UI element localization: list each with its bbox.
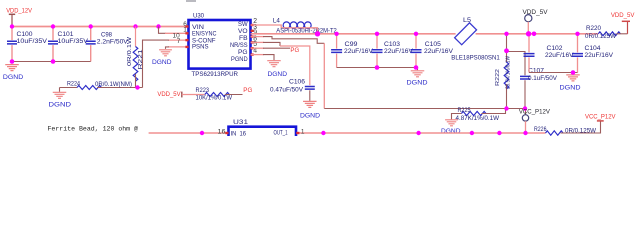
resistor R221 (vertical) xyxy=(127,27,144,88)
svg-text:25.5K/1%/0.1W: 25.5K/1%/0.1W xyxy=(506,55,512,89)
capacitor C100 xyxy=(7,27,48,62)
junction dot (137.5,87.5) xyxy=(135,85,139,89)
svg-text:DGND: DGND xyxy=(152,59,172,66)
junction dot (12,26.5) xyxy=(10,24,14,28)
junction dot (528.6,33.8) xyxy=(526,31,531,36)
svg-text:4.87K/1%/0.1W: 4.87K/1%/0.1W xyxy=(456,115,500,122)
svg-text:C103: C103 xyxy=(384,41,401,48)
capacitor C102 xyxy=(524,34,575,73)
power flag VDD_5V pullup xyxy=(157,91,181,98)
wire mid cap ground bus xyxy=(337,68,418,71)
wire PSNS net xyxy=(168,46,189,48)
junction dot (471.9,133) xyxy=(470,131,474,135)
junction dot (506.5,108.5) xyxy=(504,106,508,110)
svg-text:R224: R224 xyxy=(67,80,80,87)
capacitor C103 xyxy=(372,34,414,68)
power flag VDD_12V xyxy=(6,8,32,27)
resistor R226 xyxy=(534,121,601,135)
junction dot (377,33.8) xyxy=(375,32,379,36)
junction dot (377,67.5) xyxy=(375,65,380,70)
svg-text:DGND: DGND xyxy=(560,85,581,92)
ground DGND at R224 xyxy=(49,88,72,109)
junction dot (53,61.5) xyxy=(51,59,56,64)
junction dot (90.7,26.5) xyxy=(89,24,93,28)
wire FB divider line xyxy=(324,108,506,110)
svg-text:U31: U31 xyxy=(233,119,249,126)
svg-text:1: 1 xyxy=(301,128,305,135)
capacitor C106 xyxy=(270,79,315,101)
wire SW to L4 xyxy=(251,25,284,28)
svg-text:0.1uF/50V: 0.1uF/50V xyxy=(528,75,558,82)
svg-text:22uF/16V: 22uF/16V xyxy=(344,48,374,55)
gray tick top edge xyxy=(186,0,196,2)
power flag VCC_P12V right xyxy=(585,113,616,121)
IC U31 partial xyxy=(229,119,297,141)
junction dot (573,72.5) xyxy=(571,70,576,75)
ground DGND mid caps xyxy=(407,71,428,87)
svg-text:22uF/16V: 22uF/16V xyxy=(585,52,614,59)
junction dot (577.5,33.8) xyxy=(575,32,579,36)
svg-text:R223: R223 xyxy=(196,87,210,94)
pin numbers U30 left xyxy=(173,21,188,45)
svg-text:22uF/16V: 22uF/16V xyxy=(545,52,574,59)
svg-text:0R/0.125W: 0R/0.125W xyxy=(585,33,616,40)
svg-text:SW: SW xyxy=(238,21,248,28)
ground DGND at C106 xyxy=(300,101,320,119)
junction dot (499.4,133) xyxy=(497,131,501,135)
svg-text:C100: C100 xyxy=(17,31,34,38)
wire input cap ground bus xyxy=(12,62,91,64)
svg-text:C101: C101 xyxy=(58,31,75,38)
svg-text:VDD_5V: VDD_5V xyxy=(157,91,181,98)
svg-text:VDD_5V: VDD_5V xyxy=(611,12,635,19)
pin wedges U30 xyxy=(185,24,253,56)
svg-text:U30: U30 xyxy=(193,13,204,20)
junction dot (506.5,50.8) xyxy=(504,48,509,53)
wire VIN rail xyxy=(12,26,189,28)
svg-text:VO: VO xyxy=(238,28,248,35)
IC U30 TPS62913RPUR xyxy=(189,13,251,78)
power flag VDD_5V right xyxy=(611,12,635,21)
svg-text:C98: C98 xyxy=(101,31,113,38)
svg-text:10K/1%/0.1W: 10K/1%/0.1W xyxy=(196,95,233,102)
junction dot (135.5,26.5) xyxy=(133,24,137,28)
pin wedges U31 xyxy=(225,132,299,134)
wire bottom rail left xyxy=(149,132,229,134)
junction dot (416,67.5) xyxy=(414,65,419,70)
svg-text:PG: PG xyxy=(290,47,299,54)
capacitor C99 xyxy=(331,34,374,68)
svg-text:PGND: PGND xyxy=(231,56,248,63)
wire output rail VO xyxy=(251,33,456,35)
resistor R225 xyxy=(452,107,506,122)
capacitor C107 xyxy=(507,52,558,109)
power port VCC_P12V circle xyxy=(519,109,551,134)
capacitor C105 xyxy=(411,34,454,68)
junction dot (202,133) xyxy=(200,131,204,135)
svg-text:22uF/16V: 22uF/16V xyxy=(384,48,414,55)
wire bottom rail right xyxy=(296,132,546,134)
svg-text:22uF/16V: 22uF/16V xyxy=(424,48,454,55)
junction dot (525,108.5) xyxy=(523,106,527,110)
ground DGND at R225 xyxy=(441,120,461,135)
svg-text:R225: R225 xyxy=(458,107,471,114)
svg-text:C106: C106 xyxy=(289,79,306,86)
ground DGND at PSNS xyxy=(152,50,172,66)
svg-text:VCC_P12V: VCC_P12V xyxy=(519,109,551,116)
svg-text:C107: C107 xyxy=(528,68,545,75)
svg-text:R226: R226 xyxy=(534,126,547,133)
resistor R224 xyxy=(60,80,143,89)
svg-text:C105: C105 xyxy=(425,41,442,48)
capacitor C104 xyxy=(572,34,614,73)
ground DGND input caps xyxy=(3,65,24,81)
junction dot (12,61.5) xyxy=(10,59,15,64)
svg-text:NR/SS: NR/SS xyxy=(230,42,248,49)
wire output rail after bead xyxy=(476,33,599,35)
wire EN/SYNC branch xyxy=(159,27,167,34)
wire L4 to output rail xyxy=(283,28,318,34)
svg-text:L4: L4 xyxy=(273,18,280,25)
svg-text:VCC_P12V: VCC_P12V xyxy=(585,113,616,120)
svg-text:10uF/35V: 10uF/35V xyxy=(17,38,48,45)
wire PG stub xyxy=(251,47,265,49)
svg-text:DGND: DGND xyxy=(3,74,24,81)
capacitor C98 xyxy=(86,27,129,62)
svg-text:PG: PG xyxy=(243,87,252,94)
junction dot (534,33.8) xyxy=(532,32,537,37)
svg-text:R220: R220 xyxy=(586,25,602,32)
svg-text:7: 7 xyxy=(177,38,181,45)
capacitor C101 xyxy=(48,27,89,62)
junction dot (506.5,33.8) xyxy=(504,32,508,36)
svg-text:PSNS: PSNS xyxy=(192,44,209,51)
resistor R223 xyxy=(182,87,243,102)
svg-text:IN_16: IN_16 xyxy=(231,130,247,136)
svg-text:TPS62913RPUR: TPS62913RPUR xyxy=(192,71,239,78)
svg-text:DGND: DGND xyxy=(49,101,72,108)
svg-text:10uF/35V: 10uF/35V xyxy=(58,38,89,45)
svg-text:DGND: DGND xyxy=(300,112,320,119)
wire S-CONF net xyxy=(168,39,189,41)
resistor R222 (vertical) xyxy=(495,34,512,109)
ground DGND right caps xyxy=(560,75,581,92)
inductor L4 xyxy=(273,18,338,35)
svg-text:0R/0.1W: 0R/0.1W xyxy=(127,36,133,66)
wire FB net xyxy=(251,36,265,38)
svg-text:FB: FB xyxy=(239,35,248,42)
resistor R220 xyxy=(585,22,628,40)
junction dot (158.5,26.5) xyxy=(156,24,160,28)
ground DGND at PGND xyxy=(267,61,287,78)
svg-text:DGND: DGND xyxy=(407,79,428,86)
pin numbers U30 right xyxy=(253,18,257,55)
svg-text:R222: R222 xyxy=(495,69,501,86)
svg-text:BLE18PS080SN1: BLE18PS080SN1 xyxy=(451,54,500,61)
power port VDD_5V circle xyxy=(523,9,549,34)
junction dot (53,26.5) xyxy=(51,24,55,28)
wire right cap ground bus xyxy=(529,72,578,74)
ferrite bead L5 xyxy=(451,17,500,62)
svg-text:0.47uF/50V: 0.47uF/50V xyxy=(270,86,304,93)
svg-text:0R/0.1W(NM): 0R/0.1W(NM) xyxy=(95,81,132,88)
junction dot (525.5,133) xyxy=(523,131,527,135)
junction dot (416,33.8) xyxy=(414,32,418,36)
junction dot (323.4,133) xyxy=(321,131,325,135)
svg-text:2.2nF/50V: 2.2nF/50V xyxy=(97,39,129,46)
junction dot (418.6,133) xyxy=(416,131,420,135)
svg-text:OUT_1: OUT_1 xyxy=(274,130,288,137)
svg-text:C99: C99 xyxy=(345,41,359,48)
svg-text:DGND: DGND xyxy=(268,71,288,78)
junction dot (317.5,33.8) xyxy=(315,31,320,36)
wire NR/SS to C106 xyxy=(251,41,265,43)
svg-text:16: 16 xyxy=(218,128,227,135)
wire PGND stub xyxy=(251,54,265,56)
junction dot (336.6,33.8) xyxy=(334,32,338,36)
svg-text:Ferrite Bead, 120 ohm @: Ferrite Bead, 120 ohm @ xyxy=(48,126,139,133)
